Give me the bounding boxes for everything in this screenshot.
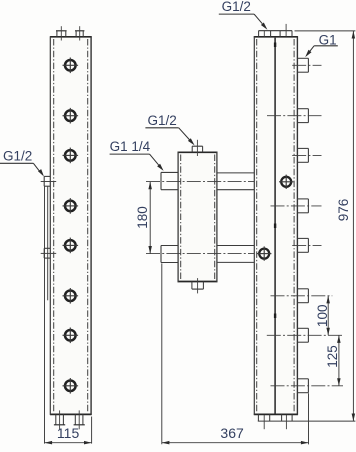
bracket edge line / 115 extension line [44, 186, 46, 443]
side view mid division line [274, 38, 276, 414]
lower connecting pipe [217, 245, 254, 247]
port circle row 7 (front view) [65, 330, 76, 341]
svg-text:100: 100 [315, 305, 330, 328]
dim 115 line [45, 442, 92, 444]
port centerline row 7 [267, 334, 343, 336]
side view hidden line left [256, 39, 258, 412]
G1 port stub row 7 (side view) [297, 327, 308, 329]
lower flange box (middle view) [161, 245, 178, 247]
G1 port stub row 8 (side view) [297, 378, 308, 380]
port circle row 4 (front view) [65, 201, 76, 212]
side port stub upper (front view, G1/2) [44, 175, 50, 177]
hidden bore line left [53, 39, 55, 412]
side view top plug 2 [279, 31, 281, 37]
side view top plate line [259, 30, 293, 32]
middle block bottom stud [191, 282, 193, 290]
dim 125 line [338, 335, 340, 386]
bottom drain stud A (front view) [55, 414, 57, 424]
port centerline row 4 [271, 205, 322, 207]
top plug A (front view) [56, 30, 67, 32]
port centerline row 5 [292, 244, 321, 246]
side view top plug 1 [258, 31, 260, 37]
port circle row 1 (front view) [65, 60, 76, 71]
side view centerline right [293, 39, 295, 412]
bracket inner edge line [47, 186, 49, 300]
svg-text:367: 367 [220, 425, 244, 441]
G1 port stub row 4 (side view) [297, 198, 308, 200]
port centerline row 6 [271, 295, 333, 297]
svg-text:G1/2: G1/2 [222, 0, 251, 14]
upper flange box (middle view) [161, 171, 178, 173]
dim 115 right extension line [91, 417, 93, 444]
side view bottom plate line / 976 bottom extension [258, 420, 356, 422]
dim 976 line [352, 31, 354, 421]
svg-text:G1/2: G1/2 [3, 149, 32, 164]
side view bottom plug 1 [257, 414, 259, 421]
dim 367 line [162, 442, 309, 444]
port centerline row 2 [267, 115, 322, 117]
G1 port stub row 6 (side view) [297, 288, 308, 290]
port circle row 2 (front view) [65, 110, 76, 121]
upper pipe centerline [146, 181, 281, 183]
lower pipe centerline [146, 253, 259, 255]
dim 100 line [327, 296, 329, 336]
svg-text:180: 180 [135, 206, 150, 229]
side view body [254, 37, 297, 415]
middle block body [178, 152, 217, 281]
manifold front view body [50, 37, 91, 415]
G1 port stub row 1 (side view) [297, 57, 308, 59]
port circle row 5 (front view) [65, 240, 76, 251]
port circle row 6 (front view) [65, 291, 76, 302]
dim 180 line [149, 182, 151, 254]
port circle row 8 (front view) [65, 381, 76, 392]
svg-text:115: 115 [57, 425, 80, 441]
dim 367 right extension line [308, 393, 310, 444]
svg-text:125: 125 [325, 345, 340, 368]
middle block hidden line left [180, 155, 182, 280]
bottom drain stud B (front view) [74, 414, 76, 424]
G1 port stub row 3 (side view) [297, 147, 308, 149]
middle block top stud (G1/2) [192, 145, 202, 147]
G1 port stub row 2 (side view) [297, 108, 308, 110]
svg-text:G1: G1 [319, 33, 337, 48]
hidden bore line right [87, 39, 89, 412]
middle block hidden line right [214, 155, 216, 280]
upper connecting pipe [217, 172, 254, 174]
top plug B (front view) [75, 30, 84, 32]
svg-text:G1 1/4: G1 1/4 [110, 139, 151, 154]
side port stub lower (front view) [44, 247, 50, 249]
port centerline row 3 [292, 154, 321, 156]
side view bottom plug 2 [281, 414, 283, 421]
lower pipe port mark (side view) [259, 249, 269, 259]
upper pipe port mark (side view) [281, 177, 291, 187]
svg-text:G1/2: G1/2 [147, 113, 176, 128]
G1 port stub row 5 (side view) [297, 237, 308, 239]
dim 976 top extension line [295, 30, 356, 32]
port centerline row 1 [292, 64, 321, 66]
dim 367 left extension line [161, 263, 163, 444]
port centerline row 8 [271, 385, 344, 387]
svg-text:976: 976 [336, 199, 351, 222]
port circle row 3 (front view) [65, 150, 76, 161]
